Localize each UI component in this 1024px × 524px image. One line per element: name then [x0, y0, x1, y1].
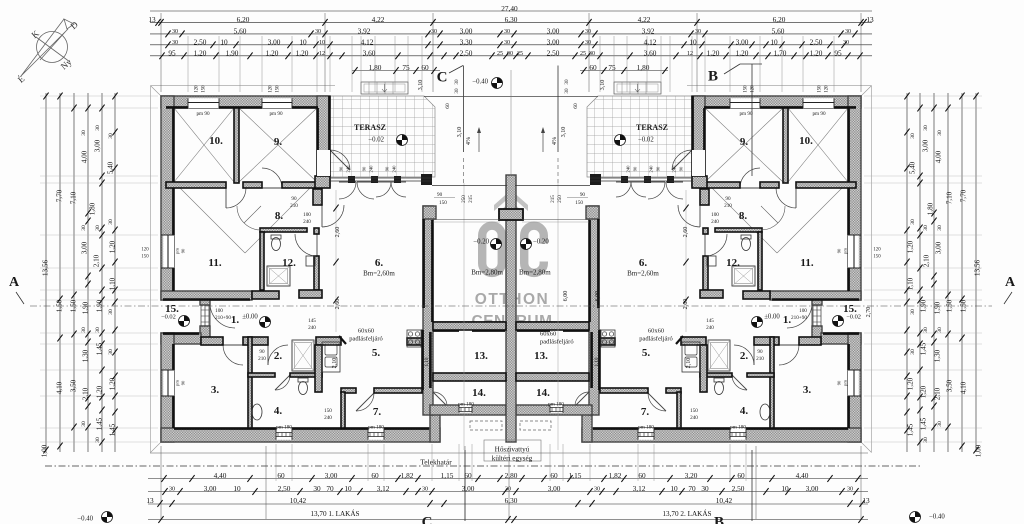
svg-text:2,50: 2,50	[810, 38, 823, 47]
svg-text:30: 30	[172, 40, 178, 46]
svg-text:±0.00: ±0.00	[242, 313, 258, 320]
svg-text:90: 90	[837, 248, 842, 253]
svg-text:30: 30	[910, 309, 916, 315]
svg-text:3,50: 3,50	[70, 379, 78, 392]
svg-text:3,12: 3,12	[377, 484, 390, 493]
svg-text:95: 95	[168, 49, 176, 58]
svg-text:25: 25	[497, 51, 503, 57]
svg-text:2,50: 2,50	[194, 38, 207, 47]
svg-text:27,40: 27,40	[501, 4, 518, 13]
svg-text:30: 30	[937, 327, 943, 333]
svg-text:120: 120	[873, 248, 881, 253]
svg-text:2,60: 2,60	[334, 299, 341, 310]
svg-text:3,00: 3,00	[204, 484, 217, 493]
svg-text:3,20: 3,20	[685, 471, 698, 480]
svg-text:14.: 14.	[536, 387, 550, 399]
svg-text:3,10: 3,10	[456, 127, 463, 138]
svg-text:3,00: 3,00	[547, 27, 560, 36]
svg-text:10: 10	[770, 38, 778, 47]
svg-text:240: 240	[690, 415, 698, 421]
svg-text:1,20: 1,20	[296, 49, 309, 58]
svg-text:10: 10	[299, 38, 307, 47]
svg-text:30: 30	[454, 79, 460, 85]
svg-text:3,92: 3,92	[642, 27, 655, 36]
svg-text:30: 30	[81, 130, 87, 136]
svg-text:90: 90	[656, 166, 661, 171]
svg-text:−0.02: −0.02	[846, 313, 861, 320]
svg-text:12.: 12.	[726, 257, 740, 269]
svg-text:70: 70	[688, 484, 696, 493]
svg-text:6.: 6.	[375, 257, 384, 269]
svg-text:1,30: 1,30	[82, 349, 90, 362]
svg-text:75: 75	[402, 63, 410, 72]
svg-text:13,70 1. LAKÁS: 13,70 1. LAKÁS	[310, 508, 359, 518]
svg-text:30: 30	[454, 88, 460, 94]
svg-text:4.: 4.	[740, 405, 749, 417]
svg-text:240: 240	[711, 219, 719, 225]
svg-text:250: 250	[461, 195, 467, 203]
svg-text:13,56: 13,56	[42, 260, 50, 277]
svg-text:3,00: 3,00	[548, 484, 561, 493]
svg-text:240: 240	[392, 165, 397, 173]
svg-text:2,80: 2,80	[505, 471, 518, 480]
svg-text:150: 150	[744, 85, 749, 93]
svg-text:2,10: 2,10	[685, 358, 692, 369]
svg-text:1,70: 1,70	[774, 49, 787, 58]
svg-text:6,30: 6,30	[505, 15, 518, 24]
svg-text:30: 30	[81, 327, 87, 333]
svg-text:30: 30	[564, 88, 570, 94]
svg-text:30: 30	[172, 29, 178, 35]
svg-text:11.: 11.	[208, 257, 221, 269]
svg-text:1,10: 1,10	[907, 277, 915, 290]
svg-text:215: 215	[550, 195, 556, 203]
svg-text:30: 30	[937, 421, 943, 427]
svg-text:3,60: 3,60	[363, 49, 376, 58]
svg-text:1,00: 1,00	[41, 444, 49, 457]
svg-text:3,00: 3,00	[268, 38, 281, 47]
svg-text:25: 25	[517, 51, 523, 57]
svg-text:250: 250	[557, 195, 563, 203]
svg-text:1,90: 1,90	[226, 49, 239, 58]
svg-text:C: C	[437, 69, 448, 85]
svg-text:145: 145	[706, 318, 714, 324]
svg-text:90: 90	[181, 248, 186, 253]
svg-text:30: 30	[431, 29, 437, 35]
svg-text:90: 90	[339, 166, 344, 171]
svg-text:3,00: 3,00	[81, 241, 89, 254]
svg-text:4,40: 4,40	[214, 471, 227, 480]
svg-text:30: 30	[585, 29, 591, 35]
svg-text:9.: 9.	[274, 136, 283, 148]
svg-text:1,45: 1,45	[920, 417, 928, 430]
svg-text:A: A	[1005, 275, 1016, 290]
svg-text:150: 150	[873, 255, 881, 260]
svg-text:1,10: 1,10	[109, 277, 117, 290]
svg-text:1,20: 1,20	[194, 49, 207, 58]
svg-text:30: 30	[95, 125, 101, 131]
svg-text:30: 30	[923, 125, 929, 131]
svg-text:30: 30	[847, 487, 853, 493]
svg-text:1,50: 1,50	[946, 299, 954, 312]
svg-text:pm: pm	[843, 248, 848, 254]
svg-text:90: 90	[385, 166, 390, 171]
svg-text:13: 13	[866, 15, 874, 24]
svg-text:60: 60	[573, 103, 579, 109]
svg-text:10: 10	[670, 484, 678, 493]
svg-text:1,80: 1,80	[369, 63, 382, 72]
svg-text:90: 90	[725, 196, 731, 202]
svg-text:30: 30	[315, 29, 321, 35]
svg-text:1,20: 1,20	[810, 49, 823, 58]
svg-text:pm 180: pm 180	[458, 401, 474, 407]
svg-text:240: 240	[303, 219, 311, 225]
svg-text:±0.00: ±0.00	[764, 313, 780, 320]
svg-text:padlásfeljáró: padlásfeljáró	[349, 335, 383, 342]
svg-text:30: 30	[910, 219, 916, 225]
svg-text:2,10: 2,10	[934, 387, 942, 400]
svg-text:30: 30	[95, 327, 101, 333]
svg-text:2,10: 2,10	[923, 254, 931, 267]
svg-text:4.: 4.	[274, 405, 283, 417]
svg-text:4,12: 4,12	[361, 38, 374, 47]
svg-text:60x60: 60x60	[358, 327, 374, 334]
svg-text:30: 30	[504, 40, 510, 46]
svg-text:120: 120	[195, 85, 200, 93]
svg-text:150: 150	[818, 85, 823, 93]
svg-text:padlásfeljáró: padlásfeljáró	[639, 335, 673, 342]
svg-text:5,60: 5,60	[772, 27, 785, 36]
svg-text:6,00: 6,00	[562, 291, 569, 302]
svg-text:12.: 12.	[282, 257, 296, 269]
svg-text:5.: 5.	[372, 347, 381, 359]
svg-text:pm 180: pm 180	[548, 401, 564, 407]
svg-text:150: 150	[202, 85, 207, 93]
svg-text:7,70: 7,70	[56, 189, 64, 202]
svg-text:60: 60	[638, 471, 646, 480]
svg-text:25: 25	[580, 51, 586, 57]
svg-text:30: 30	[585, 40, 591, 46]
svg-text:1.: 1.	[231, 314, 240, 326]
svg-text:4,00: 4,00	[935, 150, 943, 163]
svg-text:1,45: 1,45	[96, 342, 104, 355]
svg-text:4,22: 4,22	[372, 15, 385, 24]
svg-text:120: 120	[269, 85, 274, 93]
svg-text:Bm=2,80m: Bm=2,80m	[519, 269, 551, 277]
svg-text:5,40: 5,40	[107, 161, 115, 174]
svg-text:1,10: 1,10	[424, 357, 430, 366]
svg-text:1,20: 1,20	[109, 377, 117, 390]
svg-text:1,50: 1,50	[70, 299, 78, 312]
svg-text:1,90: 1,90	[82, 301, 90, 314]
svg-text:1,30: 1,30	[934, 349, 942, 362]
svg-text:−0.02: −0.02	[638, 136, 654, 143]
svg-text:30: 30	[422, 487, 428, 493]
svg-text:3,00: 3,00	[325, 471, 338, 480]
svg-text:pm: pm	[175, 248, 180, 254]
svg-text:30: 30	[169, 487, 175, 493]
svg-text:7,10: 7,10	[946, 191, 954, 204]
svg-text:60: 60	[371, 471, 379, 480]
svg-text:30: 30	[108, 349, 114, 355]
svg-text:3,00: 3,00	[922, 139, 930, 152]
svg-text:pm 180: pm 180	[730, 424, 746, 430]
svg-text:30: 30	[589, 51, 595, 57]
svg-text:2,50: 2,50	[547, 49, 560, 58]
svg-text:240: 240	[346, 165, 351, 173]
svg-text:10: 10	[344, 484, 352, 493]
svg-text:150: 150	[690, 408, 698, 414]
svg-text:4%: 4%	[465, 137, 472, 145]
svg-text:TERASZ: TERASZ	[636, 123, 668, 132]
svg-text:1,50: 1,50	[56, 299, 64, 312]
svg-text:30: 30	[81, 421, 87, 427]
svg-text:pm 90: pm 90	[812, 111, 826, 117]
svg-text:−0.20: −0.20	[473, 238, 489, 245]
svg-text:−0.20: −0.20	[533, 238, 549, 245]
svg-text:1,20: 1,20	[736, 49, 749, 58]
svg-text:6.: 6.	[639, 257, 648, 269]
svg-text:100: 100	[711, 212, 719, 218]
svg-text:145: 145	[308, 318, 316, 324]
svg-text:1,50: 1,50	[960, 299, 968, 312]
svg-text:3,10: 3,10	[599, 80, 606, 91]
svg-text:30: 30	[313, 484, 321, 493]
svg-text:150: 150	[141, 255, 149, 260]
svg-text:1,90: 1,90	[934, 301, 942, 314]
svg-text:13: 13	[862, 496, 870, 505]
svg-text:1,80: 1,80	[637, 63, 650, 72]
svg-text:1,00: 1,00	[975, 444, 983, 457]
svg-text:4,40: 4,40	[796, 471, 809, 480]
svg-text:3,00: 3,00	[547, 38, 560, 47]
svg-text:60x60: 60x60	[648, 327, 664, 334]
svg-text:2,60: 2,60	[682, 299, 689, 310]
svg-text:1,45: 1,45	[109, 423, 117, 436]
svg-text:3,92: 3,92	[358, 27, 371, 36]
svg-text:7,10: 7,10	[70, 191, 78, 204]
svg-text:1,15: 1,15	[569, 471, 582, 480]
svg-text:2,50: 2,50	[278, 484, 291, 493]
svg-text:1,20: 1,20	[707, 49, 720, 58]
svg-text:90: 90	[633, 166, 638, 171]
svg-text:7.: 7.	[641, 406, 650, 418]
svg-text:30: 30	[843, 40, 849, 46]
svg-text:3,00: 3,00	[736, 38, 749, 47]
svg-text:30: 30	[910, 133, 916, 139]
svg-text:pm 90: pm 90	[269, 111, 283, 117]
svg-text:A: A	[9, 275, 20, 290]
svg-text:90: 90	[362, 166, 367, 171]
svg-text:30: 30	[108, 133, 114, 139]
svg-text:13,70 2. LAKÁS: 13,70 2. LAKÁS	[662, 508, 711, 518]
svg-text:1,20: 1,20	[907, 240, 915, 253]
svg-text:30: 30	[505, 487, 511, 493]
svg-text:14.: 14.	[472, 387, 486, 399]
svg-text:30: 30	[564, 79, 570, 85]
svg-text:150: 150	[439, 200, 447, 206]
svg-text:−0.02: −0.02	[161, 313, 176, 320]
svg-text:30: 30	[108, 309, 114, 315]
svg-text:3.: 3.	[803, 384, 812, 396]
svg-text:10,42: 10,42	[290, 496, 307, 505]
svg-text:10,42: 10,42	[716, 496, 733, 505]
svg-text:Telekhatár: Telekhatár	[420, 458, 452, 467]
svg-text:120: 120	[141, 248, 149, 253]
svg-text:8.: 8.	[739, 210, 748, 222]
svg-text:9.: 9.	[740, 136, 749, 148]
svg-text:30: 30	[504, 29, 510, 35]
svg-text:100: 100	[799, 308, 807, 314]
svg-text:10: 10	[781, 484, 789, 493]
svg-text:Hőszivattyú: Hőszivattyú	[495, 446, 530, 454]
svg-text:3,50: 3,50	[946, 379, 954, 392]
svg-text:60: 60	[464, 471, 472, 480]
svg-text:00: 00	[507, 51, 513, 57]
svg-text:13.: 13.	[534, 350, 548, 362]
svg-text:215: 215	[468, 195, 474, 203]
svg-text:30: 30	[937, 225, 943, 231]
svg-text:60: 60	[277, 471, 285, 480]
svg-text:6,00: 6,00	[594, 291, 601, 302]
svg-text:pm: pm	[175, 380, 180, 386]
svg-text:120: 120	[825, 85, 830, 93]
svg-text:90: 90	[291, 196, 297, 202]
svg-text:90: 90	[757, 349, 763, 355]
svg-text:1,45: 1,45	[96, 417, 104, 430]
svg-text:2,70: 2,70	[865, 307, 872, 318]
svg-text:6,20: 6,20	[773, 15, 786, 24]
svg-text:12: 12	[319, 51, 325, 57]
svg-text:60: 60	[589, 63, 597, 72]
svg-text:B: B	[714, 514, 724, 524]
svg-text:30: 30	[910, 349, 916, 355]
svg-text:75: 75	[608, 63, 616, 72]
svg-text:90: 90	[580, 192, 586, 198]
svg-text:90: 90	[437, 192, 443, 198]
svg-text:−0.40: −0.40	[77, 515, 93, 522]
svg-text:Bm=2,80m: Bm=2,80m	[471, 269, 503, 277]
svg-text:1,90: 1,90	[96, 299, 104, 312]
svg-text:−0.40: −0.40	[929, 513, 945, 520]
svg-text:30: 30	[594, 487, 600, 493]
svg-text:4,10: 4,10	[960, 381, 968, 394]
svg-text:2,60: 2,60	[682, 227, 689, 238]
svg-text:210: 210	[756, 356, 764, 362]
svg-text:13.: 13.	[474, 350, 488, 362]
svg-text:30: 30	[923, 327, 929, 333]
svg-text:1,82: 1,82	[401, 471, 414, 480]
svg-text:240: 240	[626, 165, 631, 173]
svg-text:2,50: 2,50	[460, 49, 473, 58]
svg-text:pm 180: pm 180	[368, 424, 384, 430]
svg-text:−0.02: −0.02	[368, 136, 384, 143]
svg-text:2,60: 2,60	[334, 227, 341, 238]
svg-text:5.: 5.	[642, 347, 651, 359]
svg-text:30: 30	[95, 225, 101, 231]
svg-text:13: 13	[146, 496, 154, 505]
svg-text:1,45: 1,45	[920, 342, 928, 355]
svg-text:4,10: 4,10	[56, 381, 64, 394]
svg-text:30: 30	[695, 29, 701, 35]
svg-text:12: 12	[687, 51, 693, 57]
svg-text:30: 30	[923, 225, 929, 231]
svg-text:1,20: 1,20	[109, 240, 117, 253]
svg-text:90: 90	[259, 349, 265, 355]
svg-text:TERASZ: TERASZ	[354, 123, 386, 132]
svg-text:4,12: 4,12	[644, 38, 657, 47]
svg-text:240: 240	[672, 165, 677, 173]
svg-text:120: 120	[751, 85, 756, 93]
svg-text:pm: pm	[843, 380, 848, 386]
svg-text:150: 150	[276, 85, 281, 93]
svg-text:5,60: 5,60	[234, 27, 247, 36]
svg-text:60x60: 60x60	[540, 330, 556, 337]
svg-text:C: C	[422, 514, 433, 524]
svg-text:240: 240	[308, 325, 316, 331]
svg-text:1,82: 1,82	[609, 471, 622, 480]
svg-text:1,10: 1,10	[594, 357, 600, 366]
svg-text:Bm=2,60m: Bm=2,60m	[627, 270, 659, 278]
svg-text:10.: 10.	[799, 135, 813, 147]
svg-text:kültéri egység: kültéri egység	[492, 455, 533, 463]
svg-text:2.: 2.	[274, 350, 283, 362]
svg-text:3,00: 3,00	[94, 139, 102, 152]
svg-text:1,20: 1,20	[920, 385, 928, 398]
svg-text:210+90: 210+90	[791, 315, 807, 321]
svg-text:3,00: 3,00	[462, 484, 475, 493]
svg-text:3,60: 3,60	[644, 49, 657, 58]
svg-text:240: 240	[649, 165, 654, 173]
svg-text:3,00: 3,00	[806, 484, 819, 493]
svg-text:6,20: 6,20	[237, 15, 250, 24]
svg-text:pm 180: pm 180	[276, 424, 292, 430]
svg-text:1,45: 1,45	[907, 423, 915, 436]
svg-text:150: 150	[575, 200, 583, 206]
svg-text:240: 240	[706, 325, 714, 331]
svg-text:60: 60	[737, 471, 745, 480]
svg-text:210: 210	[724, 203, 732, 209]
svg-text:30: 30	[937, 130, 943, 136]
svg-text:10: 10	[689, 38, 697, 47]
svg-text:1,20: 1,20	[96, 385, 104, 398]
svg-text:30: 30	[95, 437, 101, 443]
svg-text:3,10: 3,10	[560, 127, 567, 138]
svg-text:2.: 2.	[740, 350, 749, 362]
svg-text:10: 10	[319, 40, 325, 46]
svg-text:5,40: 5,40	[909, 161, 917, 174]
svg-text:1,80: 1,80	[89, 202, 97, 215]
svg-text:30: 30	[701, 484, 709, 493]
svg-text:−0.40: −0.40	[472, 78, 488, 85]
svg-text:8.: 8.	[275, 210, 284, 222]
svg-text:70: 70	[326, 484, 334, 493]
svg-text:1,90: 1,90	[920, 299, 928, 312]
svg-text:2,10: 2,10	[93, 254, 101, 267]
svg-text:4%: 4%	[551, 137, 558, 145]
svg-text:6,30: 6,30	[505, 496, 518, 505]
svg-text:pm 90: pm 90	[196, 111, 210, 117]
svg-text:1,20: 1,20	[907, 377, 915, 390]
svg-text:95: 95	[834, 49, 842, 58]
svg-text:2,10: 2,10	[82, 387, 90, 400]
svg-text:90: 90	[181, 380, 186, 385]
svg-text:1,20: 1,20	[266, 49, 279, 58]
svg-text:150: 150	[324, 408, 332, 414]
svg-text:240: 240	[369, 165, 374, 173]
svg-text:B: B	[708, 68, 718, 84]
svg-text:100: 100	[215, 308, 223, 314]
